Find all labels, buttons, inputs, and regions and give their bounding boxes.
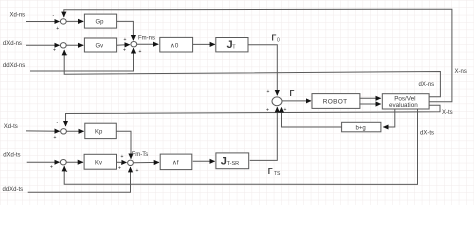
summing junction T1	[60, 19, 66, 24]
svg-text:T-SR: T-SR	[227, 161, 240, 167]
block JT	[216, 38, 248, 52]
wire B3 to Lambdaf	[133, 161, 159, 163]
svg-text:Γ: Γ	[268, 167, 273, 176]
summing junction B2	[60, 160, 66, 165]
svg-text:evaluation: evaluation	[389, 102, 418, 109]
wire ROBOT to PosVel upper	[359, 97, 380, 99]
svg-text:+: +	[50, 165, 53, 171]
svg-text:+: +	[118, 166, 121, 172]
svg-text:Γ: Γ	[272, 34, 277, 43]
svg-text:dX-ts: dX-ts	[420, 131, 434, 137]
summing junction T2	[60, 43, 66, 48]
svg-text:+: +	[267, 89, 270, 95]
wire C to ROBOT	[282, 100, 311, 102]
svg-text:0: 0	[277, 38, 280, 44]
block Gv	[84, 38, 116, 52]
svg-text:X-ts: X-ts	[442, 110, 453, 116]
svg-text:ddXd-ts: ddXd-ts	[3, 187, 24, 193]
wire B1 to Kp	[66, 130, 83, 132]
svg-text:+: +	[56, 26, 59, 32]
svg-text:X-ns: X-ns	[455, 69, 467, 75]
svg-text:dXd-ts: dXd-ts	[3, 153, 20, 159]
wire Gp output to T3	[117, 21, 134, 40]
wire X-ts feedback	[66, 105, 441, 126]
svg-text:Kp: Kp	[95, 130, 103, 136]
svg-text:+: +	[123, 48, 126, 54]
wire ROBOT to PosVel lower	[359, 103, 380, 105]
block Kv	[84, 154, 116, 169]
svg-text:Kv: Kv	[95, 161, 102, 167]
block ROBOT	[312, 94, 360, 109]
wire Lambdaf to JTSR	[193, 160, 215, 162]
wire JTSR output GammaTS to C	[250, 107, 278, 160]
svg-text:Fm-ns: Fm-ns	[138, 36, 155, 42]
summing junction T3	[131, 42, 137, 47]
block Lambdaf	[160, 154, 192, 170]
wire T2 to Gv	[66, 44, 83, 46]
wire T3 to Lambda0	[137, 43, 159, 45]
block Kp	[85, 123, 117, 138]
block Gp	[84, 14, 116, 28]
svg-text:∧f: ∧f	[172, 160, 179, 167]
svg-text:Fm-Ts: Fm-Ts	[132, 152, 149, 158]
svg-text:dX-ns: dX-ns	[419, 82, 435, 88]
wire dXd-ts input	[27, 161, 60, 163]
svg-text:Gv: Gv	[96, 44, 104, 50]
wire Lambda0 to JT	[193, 43, 215, 45]
wire dXd-ns input	[26, 44, 60, 46]
svg-text:∧0: ∧0	[170, 42, 179, 49]
wire JT output Gamma0 to C	[248, 45, 277, 95]
svg-text:dXd-ns: dXd-ns	[3, 41, 22, 47]
summing junction C	[272, 97, 282, 106]
block Lambda0	[160, 37, 193, 52]
svg-text:+: +	[53, 48, 56, 54]
svg-text:+: +	[54, 135, 57, 141]
wire Kp output to B3	[116, 131, 131, 159]
svg-text:Xd-ts: Xd-ts	[4, 124, 18, 130]
wire PosVel to b+g	[383, 109, 394, 127]
wire b+g to C	[282, 108, 342, 128]
wire X-ns feedback top	[64, 9, 452, 102]
wire B2 to Kv	[66, 161, 83, 163]
wire Kv output to B3	[117, 161, 127, 163]
svg-text:+: +	[136, 168, 139, 174]
wire dX-ns feedback	[64, 50, 440, 97]
summing junction B1	[61, 129, 67, 134]
wire Xd-ns input	[26, 21, 60, 23]
svg-text:TS: TS	[274, 171, 281, 177]
wire Gv output to T3	[117, 44, 130, 47]
svg-text:Xd-ns: Xd-ns	[10, 12, 26, 18]
wire Xd-ts input	[26, 130, 60, 132]
svg-text:+: +	[139, 49, 142, 55]
svg-text:ROBOT: ROBOT	[323, 99, 348, 106]
svg-text:Gp: Gp	[96, 20, 105, 26]
block b+g	[342, 122, 381, 132]
block PosVel evaluation	[382, 94, 429, 109]
block JTSR	[216, 153, 249, 169]
svg-text:b+g: b+g	[356, 125, 366, 131]
wire dX-ts feedback	[64, 109, 417, 184]
svg-text:ddXd-ns: ddXd-ns	[3, 63, 25, 69]
svg-text:Γ: Γ	[290, 89, 295, 98]
svg-text:+: +	[121, 154, 124, 160]
wire T1 to Gp	[66, 20, 83, 22]
summing junction B3	[128, 160, 134, 165]
wire ddXd-ts input to B3 from below	[28, 167, 131, 192]
wire ddXd-ns input to T3 from below	[30, 48, 134, 71]
svg-text:+: +	[124, 37, 127, 43]
